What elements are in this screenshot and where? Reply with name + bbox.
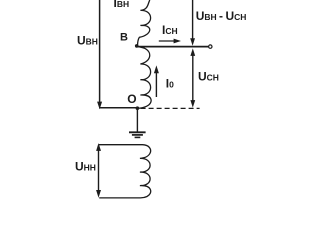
svg-text:IСН: IСН [162, 23, 178, 37]
node B [135, 44, 139, 48]
node O [136, 106, 140, 110]
svg-text:UНН: UНН [75, 160, 96, 174]
svg-text:UСН: UСН [198, 70, 219, 84]
wire: Uвн dimension line [99, 0, 101, 103]
wire: O line left [99, 107, 137, 109]
svg-text:UВН: UВН [77, 34, 98, 48]
top coil winding [138, 0, 152, 108]
dim line Uсн (double arrow) [190, 48, 195, 56]
svg-text:IВН: IВН [114, 0, 130, 10]
ground symbol [129, 131, 146, 133]
arrow Iсн [159, 40, 176, 42]
svg-text:I0: I0 [166, 77, 174, 91]
terminal circle [209, 45, 212, 48]
svg-text:О: О [127, 92, 136, 106]
svg-text:В: В [120, 32, 128, 44]
svg-text:UВН - UСН: UВН - UСН [196, 9, 247, 23]
arrowhead down at O line [97, 102, 102, 110]
dim line Uнн (double arrow) [96, 143, 101, 151]
bottom coil winding (Uнн) [99, 145, 151, 198]
arrow I0 [155, 72, 157, 97]
wire: ground stem [136, 108, 138, 132]
dim line Uвн-Uсн (top right) [192, 0, 194, 39]
dashed line right of O [141, 107, 200, 109]
wire: tap B to terminal [137, 46, 209, 48]
